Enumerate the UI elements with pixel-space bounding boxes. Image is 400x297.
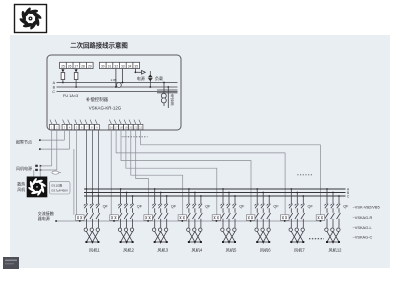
- svg-text:QF: QF: [343, 205, 349, 209]
- svg-text:~VSKAG-R: ~VSKAG-R: [353, 215, 373, 220]
- svg-text:34: 34: [128, 64, 132, 68]
- node alarm 1: [39, 130, 64, 141]
- fan M1 icon: [27, 177, 48, 198]
- motor M2: [118, 228, 133, 244]
- transformer T1: [157, 82, 178, 108]
- motor M7: [289, 228, 304, 244]
- indicator lamp D1: [148, 71, 153, 88]
- svg-text:27: 27: [74, 64, 78, 68]
- motor M5: [221, 228, 236, 244]
- ellipsis dots motors: [309, 238, 324, 240]
- aux contact box K12: [316, 215, 325, 222]
- svg-text:QF: QF: [308, 205, 314, 209]
- svg-text:电源: 电源: [137, 75, 145, 81]
- bus labels ABC: [347, 187, 350, 198]
- svg-text:28: 28: [81, 64, 85, 68]
- contactor KM12: [325, 213, 341, 228]
- svg-text:负载: 负载: [155, 75, 163, 81]
- wire from terminal 35: [135, 69, 137, 74]
- fuse FU1: [61, 69, 65, 84]
- svg-text:30: 30: [101, 64, 105, 68]
- fan logo top-left: [15, 5, 47, 33]
- motor M1: [84, 228, 99, 244]
- bus phase C: [84, 195, 346, 197]
- contactor KM6: [255, 213, 271, 228]
- svg-text:器电源: 器电源: [38, 215, 50, 221]
- motor M4: [187, 228, 202, 244]
- wire ellipsis mid: [297, 174, 312, 176]
- svg-text:QF: QF: [171, 205, 177, 209]
- breaker QF12: [324, 188, 340, 213]
- svg-text:1:05: 1:05: [111, 78, 117, 82]
- contactor KM4: [187, 213, 203, 228]
- aux contact box K4: [178, 215, 187, 222]
- wire fan power A: [40, 130, 52, 167]
- thumbnail box bottom-left: [3, 257, 19, 269]
- svg-text:散热: 散热: [17, 180, 25, 186]
- wire control branch3: [136, 130, 149, 215]
- svg-text:风机1: 风机1: [89, 246, 100, 253]
- breaker QF3: [152, 188, 168, 213]
- fuse FU2: [74, 69, 78, 88]
- contactor supply line: [56, 220, 322, 222]
- svg-text:29: 29: [88, 64, 92, 68]
- svg-text:QF: QF: [239, 205, 245, 209]
- svg-text:排: 排: [171, 101, 175, 106]
- wire fan power B: [40, 130, 57, 171]
- aux contact box K1: [76, 215, 85, 222]
- svg-text:25: 25: [61, 64, 65, 68]
- svg-text:⊙3.7µF/450V: ⊙3.7µF/450V: [51, 189, 68, 193]
- label 电容排 vertical: [171, 93, 175, 106]
- svg-text:风机12: 风机12: [328, 246, 342, 253]
- motor M12: [325, 228, 340, 244]
- contactor KM7: [289, 213, 305, 228]
- contactor KM5: [221, 213, 237, 228]
- svg-text:报警节点: 报警节点: [16, 139, 32, 145]
- capacitor C1 oval: [52, 171, 61, 174]
- svg-text:风机2: 风机2: [123, 246, 134, 253]
- wire contactor supply: [55, 220, 57, 222]
- arrow power: [135, 71, 145, 75]
- svg-text:~VSKAG-C: ~VSKAG-C: [353, 235, 373, 240]
- svg-text:补偿控制器: 补偿控制器: [86, 96, 109, 103]
- breaker QF2: [118, 188, 134, 213]
- output terminal strip X4: [109, 124, 143, 129]
- wire control branch5: [126, 130, 217, 215]
- spec box: [49, 181, 70, 194]
- svg-text:QF: QF: [103, 205, 109, 209]
- aux contact box K2: [110, 215, 119, 222]
- wire phase B: [57, 86, 178, 88]
- terminal strip X1 (25-29): [60, 62, 94, 68]
- wire fan to power: [34, 166, 40, 177]
- svg-text:VSKAG-KR-12G: VSKAG-KR-12G: [89, 106, 122, 111]
- svg-text:~VSKAG-L: ~VSKAG-L: [353, 225, 373, 230]
- svg-text:QF: QF: [273, 205, 279, 209]
- breaker QF7: [289, 188, 305, 213]
- motor M6: [255, 228, 270, 244]
- contactor KM2: [118, 213, 134, 228]
- bus phase B: [84, 192, 346, 194]
- wire control branch12: [141, 130, 321, 215]
- bus phase A: [84, 188, 346, 190]
- aux contact box K6: [246, 215, 255, 222]
- breaker QF6: [255, 188, 271, 213]
- svg-text:~VSK-VB2/VB5: ~VSK-VB2/VB5: [353, 205, 380, 210]
- wire control branch7: [116, 130, 285, 215]
- fuse links fan power: [35, 165, 38, 171]
- wire phase A: [57, 82, 178, 84]
- wire control branch1: [76, 130, 78, 215]
- panel background: [10, 35, 390, 268]
- current transformer CT1: [115, 69, 123, 88]
- svg-text:风机: 风机: [17, 186, 25, 192]
- svg-text:风机电源: 风机电源: [16, 165, 32, 171]
- wire control branch1b: [73, 149, 75, 215]
- output terminal strip X3: [49, 124, 99, 129]
- svg-text:风机3: 风机3: [157, 246, 168, 253]
- wire control branch4: [131, 130, 183, 215]
- wire ellipsis upper: [122, 136, 128, 138]
- aux contact box K3: [144, 215, 153, 222]
- svg-text:26: 26: [68, 64, 72, 68]
- svg-text:QF: QF: [137, 205, 143, 209]
- wire control branch2: [110, 130, 112, 215]
- wire branch1 pole feeds: [86, 130, 98, 196]
- svg-text:风机5: 风机5: [226, 246, 237, 253]
- svg-text:风机6: 风机6: [260, 246, 271, 253]
- svg-text:31: 31: [108, 64, 112, 68]
- breaker QF5: [220, 188, 236, 213]
- svg-text:⊙3.1Ω阻: ⊙3.1Ω阻: [51, 184, 62, 188]
- svg-text:QF: QF: [205, 205, 211, 209]
- svg-text:风机4: 风机4: [192, 246, 203, 253]
- wire phase C: [57, 91, 178, 93]
- svg-text:二次回路接线示意图: 二次回路接线示意图: [70, 41, 128, 50]
- svg-text:35: 35: [134, 64, 138, 68]
- aux contact box K5: [212, 215, 221, 222]
- aux contact box K7: [281, 215, 290, 222]
- contactor KM3: [152, 213, 168, 228]
- svg-text:C: C: [52, 90, 55, 94]
- breaker QF4: [186, 188, 202, 213]
- terminal strip X2 (30-35): [99, 62, 139, 68]
- svg-text:FU 1A×3: FU 1A×3: [63, 94, 78, 98]
- motor M3: [152, 228, 167, 244]
- contactor KM1: [84, 213, 100, 228]
- breaker QF1: [84, 188, 100, 213]
- controller U1 VSKAG-KR-12G box: [47, 55, 181, 130]
- wire control branch6: [121, 130, 251, 215]
- node alarm 2: [39, 130, 70, 150]
- svg-text:32: 32: [114, 64, 118, 68]
- svg-text:风机7: 风机7: [294, 246, 305, 253]
- svg-text:33: 33: [121, 64, 125, 68]
